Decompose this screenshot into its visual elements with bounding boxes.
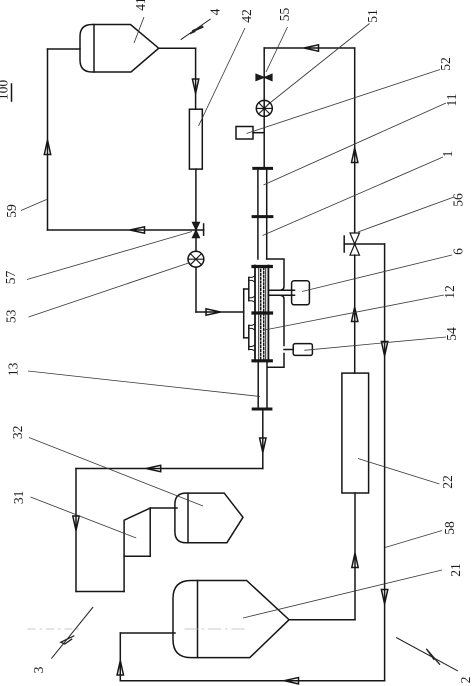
leader 52 xyxy=(247,70,441,134)
heat exchanger 42 xyxy=(189,109,202,169)
wire vessel41 left outlet xyxy=(48,48,81,50)
arrow down on 58 lower xyxy=(381,590,387,605)
packed bed inner walls xyxy=(258,266,260,361)
svg-text:3: 3 xyxy=(31,666,46,673)
leader 53 xyxy=(29,263,191,318)
valve 56 stem xyxy=(344,243,355,245)
left distributor bracket lower xyxy=(248,325,250,349)
svg-text:21: 21 xyxy=(448,563,463,577)
stub to box 54 xyxy=(284,349,293,351)
leader 58 xyxy=(385,531,442,548)
reactor bottom flange xyxy=(253,408,271,411)
leader 41 xyxy=(134,17,144,43)
wire up to vessel 21 xyxy=(119,633,121,681)
svg-text:13: 13 xyxy=(6,362,21,376)
break mark 4 xyxy=(181,19,211,40)
valve 57 xyxy=(192,222,199,237)
reactor top flange xyxy=(254,167,272,170)
svg-text:4: 4 xyxy=(208,8,223,15)
leader 54 xyxy=(304,337,446,350)
packed bed section outer walls xyxy=(254,266,256,362)
leader 51 xyxy=(271,24,370,103)
svg-text:42: 42 xyxy=(239,9,254,23)
reactor bottom tube 13 xyxy=(257,362,259,408)
arrow up below valve56 xyxy=(352,307,358,322)
valve 56 xyxy=(350,233,360,255)
leader 59 xyxy=(21,200,47,211)
bottom return line xyxy=(120,680,384,682)
vessel 32 seam xyxy=(187,493,189,543)
flow meter 53 xyxy=(188,251,204,267)
wire top recycle pipe above reactor xyxy=(263,48,265,167)
svg-text:22: 22 xyxy=(440,475,455,489)
underline of 100 xyxy=(11,84,13,101)
wire reactor outlet down xyxy=(262,409,264,469)
vessel 32 xyxy=(175,493,243,543)
arrow right on feed xyxy=(206,309,221,315)
reactor tube section 11 xyxy=(257,218,259,259)
svg-text:54: 54 xyxy=(444,327,459,341)
wire down left side xyxy=(75,469,77,592)
top recycle line xyxy=(264,47,355,49)
instrument box 52 xyxy=(236,127,253,140)
wire vessel21 point to right riser xyxy=(289,619,355,621)
leader 22 xyxy=(358,459,440,485)
svg-text:6: 6 xyxy=(451,248,466,255)
vessel 41 seam xyxy=(93,25,95,73)
wire exchanger 42 to valve 57 xyxy=(195,169,197,222)
leader 12 xyxy=(265,295,444,330)
svg-text:55: 55 xyxy=(277,8,292,22)
svg-text:32: 32 xyxy=(10,426,25,440)
svg-text:56: 56 xyxy=(451,193,466,207)
leader 56 xyxy=(358,197,454,232)
valve 55 xyxy=(256,74,272,81)
svg-text:12: 12 xyxy=(442,285,457,299)
leader 1 xyxy=(263,157,443,236)
instrument box 54 xyxy=(293,344,312,356)
nozzle to motor 6 xyxy=(268,289,294,291)
valve 57 stem xyxy=(196,229,204,231)
stub box52 to pipe xyxy=(253,132,264,134)
leader 31 xyxy=(31,497,137,538)
flow meter 51 xyxy=(256,100,272,116)
break mark 2 xyxy=(396,638,458,671)
arrow up right line xyxy=(352,148,358,163)
svg-text:51: 51 xyxy=(365,9,380,23)
svg-text:57: 57 xyxy=(3,271,18,285)
arrow up to vessel 21 xyxy=(117,661,123,676)
leader 55 xyxy=(266,27,288,72)
arrow left on outlet xyxy=(146,465,161,471)
packed bed top flange xyxy=(253,265,271,268)
arrow down left side xyxy=(73,516,79,531)
wire into vessel 21 xyxy=(120,632,175,634)
left manifold outer vertical xyxy=(243,289,245,338)
packed bed mid flange xyxy=(253,311,272,314)
reactor mid flange xyxy=(253,215,272,218)
motor box 6 xyxy=(292,281,310,305)
wire vessel41 point to corner xyxy=(159,47,196,49)
wire left loop vertical 59 xyxy=(47,49,49,230)
catalyst dots 12 xyxy=(260,266,262,361)
svg-text:52: 52 xyxy=(438,57,453,71)
leader 11 xyxy=(264,103,447,185)
right bypass vertical 58 xyxy=(384,244,386,681)
left distributor bracket upper xyxy=(248,277,250,300)
vessel 21 seam xyxy=(197,581,199,658)
svg-text:31: 31 xyxy=(11,491,26,505)
jacket outline right xyxy=(267,259,284,290)
svg-text:1: 1 xyxy=(440,151,455,158)
label 100 xyxy=(0,80,11,101)
svg-text:100: 100 xyxy=(0,80,11,101)
leader 57 xyxy=(27,232,192,280)
wire rect22 down xyxy=(354,493,356,620)
vessel 41 xyxy=(80,25,159,73)
leader 42 xyxy=(199,28,246,126)
packed bed bottom flange xyxy=(253,359,271,362)
funnel 31 xyxy=(124,508,150,556)
arrow left on loop bottom xyxy=(130,227,145,233)
leader 32 xyxy=(29,438,203,507)
svg-text:2: 2 xyxy=(458,677,473,684)
leader 21 xyxy=(243,570,442,618)
svg-text:58: 58 xyxy=(442,521,457,535)
svg-text:41: 41 xyxy=(133,0,148,11)
arrow down above exchanger 42 xyxy=(192,79,198,94)
arrow up on loop 59 xyxy=(44,140,50,155)
break mark 3 xyxy=(51,607,93,659)
vessel 21 xyxy=(173,581,289,658)
svg-text:11: 11 xyxy=(444,94,459,107)
wire valve56 branch right xyxy=(355,243,385,245)
centerline vessel 21 xyxy=(28,628,80,630)
right recycle vertical upper xyxy=(354,48,356,233)
column 22 xyxy=(342,373,369,493)
reactor tube section upper xyxy=(257,170,259,216)
wire loop bottom horizontal xyxy=(48,229,197,231)
svg-text:59: 59 xyxy=(4,204,19,218)
wire valve57 to meter 53 xyxy=(195,238,197,252)
leader 13 xyxy=(28,371,260,397)
wire bottom to funnel xyxy=(76,591,124,593)
wire feed horizontal into reactor xyxy=(196,311,244,313)
wire outlet horizontal left xyxy=(76,468,263,470)
wire valve56 to rect22 xyxy=(354,255,356,373)
wire funnel to vessel 32 xyxy=(150,507,177,509)
leader 6 xyxy=(302,255,452,292)
arrow down on 58 upper xyxy=(381,342,387,357)
svg-text:53: 53 xyxy=(4,309,19,323)
arrow down on outlet xyxy=(260,438,266,453)
arrow left on bottom line xyxy=(284,678,299,684)
arrow up below rect22 xyxy=(352,553,358,568)
wire down to exchanger 42 xyxy=(195,48,197,109)
wire up into funnel xyxy=(123,556,125,591)
arrow left on top line xyxy=(304,45,319,51)
wire meter53 down to feed corner xyxy=(195,267,197,312)
